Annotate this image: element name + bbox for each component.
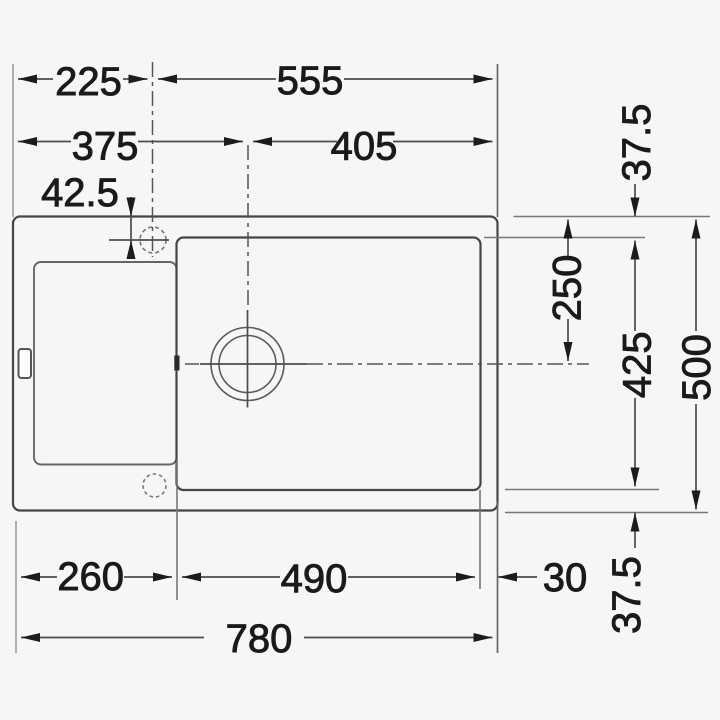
dimension 555 xyxy=(158,59,493,103)
dimension 37.5 bottom xyxy=(605,513,649,634)
dimension 250 xyxy=(546,220,590,362)
svg-text:500: 500 xyxy=(675,334,719,401)
extension line bowl right bottom xyxy=(479,490,481,589)
faucet centerline xyxy=(152,62,154,257)
svg-text:780: 780 xyxy=(226,617,293,661)
svg-text:425: 425 xyxy=(616,331,660,398)
svg-text:30: 30 xyxy=(543,556,588,600)
extension line bottom edge right xyxy=(505,512,708,514)
extension line top edge right xyxy=(514,216,711,218)
extension line bowl bottom right xyxy=(505,489,659,491)
dimension 225 xyxy=(18,60,148,104)
svg-text:555: 555 xyxy=(277,59,344,103)
dimension 780 xyxy=(21,617,493,661)
drainer tray xyxy=(34,262,177,465)
svg-text:405: 405 xyxy=(331,125,398,169)
svg-text:490: 490 xyxy=(281,557,348,601)
extension line bowl left bottom xyxy=(176,460,178,600)
extension line left top xyxy=(12,64,14,217)
svg-text:42.5: 42.5 xyxy=(41,171,119,215)
svg-text:37.5: 37.5 xyxy=(605,556,649,634)
dimension 375 xyxy=(18,125,243,169)
sink outline xyxy=(13,217,498,511)
dimension 30 xyxy=(498,556,587,600)
main bowl xyxy=(177,238,481,491)
svg-text:375: 375 xyxy=(72,125,139,169)
svg-text:225: 225 xyxy=(55,60,122,104)
overflow slot xyxy=(19,349,32,378)
centerline tick on bowl edge xyxy=(174,356,179,371)
drain outer circle xyxy=(211,328,284,401)
faucet hole xyxy=(109,227,169,253)
drain centerline horizontal xyxy=(185,363,589,365)
dimension 260 xyxy=(21,555,172,599)
svg-text:260: 260 xyxy=(57,555,124,599)
dimension 37.5 top xyxy=(615,104,659,217)
extension line right bottom xyxy=(497,502,499,653)
dimension 500 xyxy=(675,220,719,510)
svg-text:37.5: 37.5 xyxy=(615,104,659,182)
small dashed drain circle xyxy=(143,474,166,497)
svg-text:250: 250 xyxy=(546,255,590,322)
dimension 425 xyxy=(616,241,660,487)
extension line left bottom xyxy=(15,521,17,653)
extension line right top xyxy=(497,64,499,217)
dimension 490 xyxy=(182,557,475,601)
dimension 42.5 xyxy=(41,171,135,259)
extension line bowl top right xyxy=(484,237,645,239)
drain inner circle xyxy=(219,336,276,393)
dimension 405 xyxy=(253,125,493,169)
drain centerline vertical xyxy=(247,145,250,408)
